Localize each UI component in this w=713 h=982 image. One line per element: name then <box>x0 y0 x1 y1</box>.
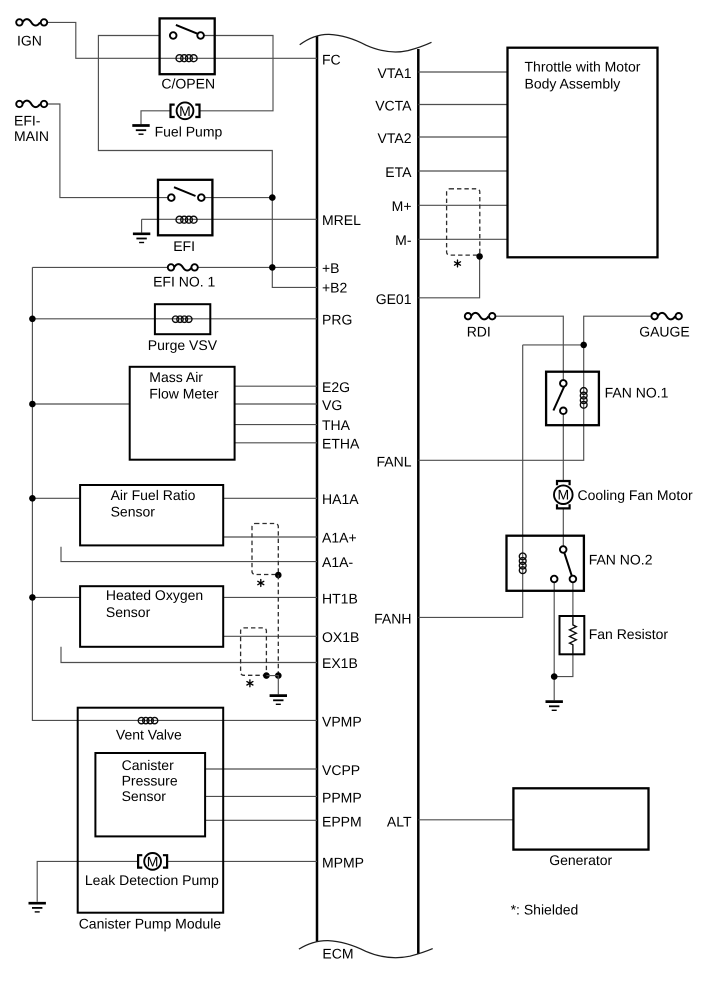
wire EPPM pin <box>205 819 317 821</box>
fuse RDI <box>465 313 496 320</box>
fuse EFI NO. 1 <box>168 264 198 271</box>
switch contacts FAN NO.1 <box>553 387 564 411</box>
svg-text:M+: M+ <box>392 198 412 214</box>
wire bus to Air Fuel Ratio Sensor <box>32 497 80 499</box>
svg-text:EX1B: EX1B <box>322 655 358 671</box>
wire node to FAN NO.2 coil feed <box>523 344 584 346</box>
wire fuel pump to ground <box>141 111 170 124</box>
node shield drain OX1B <box>263 672 270 679</box>
svg-text:EPPM: EPPM <box>322 814 362 830</box>
wire VG pin <box>235 403 317 405</box>
svg-text:RDI: RDI <box>467 324 491 340</box>
wire C/OPEN switch out to fuel pump <box>200 36 273 111</box>
svg-text:Heated Oxygen: Heated Oxygen <box>106 587 203 603</box>
motor Cooling Fan <box>554 481 573 508</box>
ground shield drains <box>270 696 287 705</box>
svg-text:M: M <box>179 103 191 119</box>
svg-text:E2G: E2G <box>322 379 350 395</box>
svg-text:HA1A: HA1A <box>322 491 359 507</box>
wire VTA1 <box>418 71 507 73</box>
svg-text:FANH: FANH <box>374 611 411 627</box>
wire FAN NO.2 right throw to fan resistor <box>572 582 574 616</box>
ECM top break squiggle <box>300 34 432 52</box>
svg-text:Sensor: Sensor <box>111 504 156 520</box>
svg-text:FAN NO.2: FAN NO.2 <box>589 552 653 568</box>
ECM bottom break squiggle <box>299 941 433 958</box>
coil C/OPEN relay <box>176 55 197 62</box>
switch contacts EFI <box>174 187 196 196</box>
svg-text:ALT: ALT <box>387 814 412 830</box>
label asterisk shield A1A <box>258 580 264 587</box>
ground leak detection pump <box>29 903 46 912</box>
shield dashed box around M+/M- <box>447 189 480 255</box>
ground cooling fan circuit <box>546 702 563 711</box>
wire VTA2 <box>418 136 507 138</box>
label asterisk shield M+/M- <box>455 260 461 267</box>
node bus VG <box>29 401 36 408</box>
svg-text:ETA: ETA <box>385 164 412 180</box>
svg-text:MAIN: MAIN <box>14 128 49 144</box>
Mass Air Flow Meter box <box>130 367 235 460</box>
wire GE01 to shield node <box>418 256 479 297</box>
wire C/OPEN switch feed down to +B2 <box>98 36 317 288</box>
wire RDI to FAN NO.1 switch <box>495 316 563 380</box>
wire PRG line through Purge VSV <box>32 318 317 320</box>
svg-text:+B: +B <box>322 260 340 276</box>
svg-text:OX1B: OX1B <box>322 629 359 645</box>
svg-text:GAUGE: GAUGE <box>639 324 690 340</box>
svg-text:THA: THA <box>322 417 351 433</box>
svg-text:GE01: GE01 <box>376 291 412 307</box>
shield dashed box around OX1B/EX1B <box>241 628 267 675</box>
Canister Pump Module box <box>78 708 224 913</box>
wire bus to Heated Oxygen Sensor <box>32 596 80 598</box>
wire bus to Mass Air Flow Meter <box>32 403 129 405</box>
svg-text:Pressure: Pressure <box>122 772 178 788</box>
fuse IGN <box>16 19 47 26</box>
svg-text:Vent Valve: Vent Valve <box>116 727 182 743</box>
Canister Pressure Sensor box <box>95 753 205 836</box>
wire ALT to generator <box>418 819 513 821</box>
svg-text:C/OPEN: C/OPEN <box>161 76 215 92</box>
wire FAN NO.2 left throw to ground <box>553 582 555 700</box>
svg-text:Canister: Canister <box>122 757 174 773</box>
wire HT1B pin <box>223 596 317 598</box>
svg-text:VCPP: VCPP <box>322 762 360 778</box>
svg-text:A1A-: A1A- <box>322 554 353 570</box>
node GAUGE fan feed <box>580 342 587 349</box>
fuse EFI-MAIN <box>16 101 47 108</box>
svg-text:MREL: MREL <box>322 212 361 228</box>
wire EFI switch out to node <box>205 197 273 199</box>
svg-text:EFI-: EFI- <box>14 113 41 129</box>
svg-text:ETHA: ETHA <box>322 436 360 452</box>
svg-text:FANL: FANL <box>376 453 411 469</box>
svg-text:Purge VSV: Purge VSV <box>148 337 218 353</box>
Throttle with Motor Body Assembly box <box>508 48 658 258</box>
svg-text:Leak Detection Pump: Leak Detection Pump <box>85 872 219 888</box>
svg-text:MPMP: MPMP <box>322 855 364 871</box>
wire shield drains to ground <box>266 676 278 695</box>
shield dashed box around A1A+/A1A- <box>252 524 278 575</box>
svg-text:IGN: IGN <box>17 33 42 49</box>
svg-text:EFI: EFI <box>173 238 195 254</box>
ground fuel pump <box>132 126 149 135</box>
wire shield drain dashed vertical <box>277 575 279 676</box>
wire left bus down to VPMP line <box>32 267 317 720</box>
svg-text:M-: M- <box>395 232 412 248</box>
svg-text:Sensor: Sensor <box>106 604 151 620</box>
Generator box <box>513 788 648 849</box>
wire IGN feed to FC line <box>47 22 317 58</box>
wire fan resistor to ground node <box>554 654 573 676</box>
wire PPMP pin <box>205 795 317 797</box>
svg-text:Sensor: Sensor <box>122 788 167 804</box>
svg-text:M: M <box>147 853 159 869</box>
svg-text:*: Shielded: *: Shielded <box>511 902 579 918</box>
wire cooling fan motor to FAN NO.2 switch <box>562 508 564 546</box>
wire HA1A pin <box>223 497 317 499</box>
svg-text:Body Assembly: Body Assembly <box>525 76 621 92</box>
fuse GAUGE <box>651 313 682 320</box>
relay FAN NO.2 box <box>507 536 584 591</box>
svg-text:Cooling Fan Motor: Cooling Fan Motor <box>578 487 694 503</box>
wire EFI-MAIN feed to EFI switch <box>47 104 168 198</box>
svg-text:Air Fuel Ratio: Air Fuel Ratio <box>111 487 196 503</box>
node shield drain A1A <box>275 572 282 579</box>
svg-text:Canister Pump Module: Canister Pump Module <box>79 916 222 932</box>
svg-text:Fuel Pump: Fuel Pump <box>155 124 223 140</box>
svg-text:Mass Air: Mass Air <box>149 369 203 385</box>
wire A1A+ pin <box>223 536 317 538</box>
relay C/OPEN box <box>160 18 215 74</box>
wire THA pin <box>235 424 317 426</box>
node fan ground junction <box>551 673 558 680</box>
coil Vent Valve <box>138 717 158 723</box>
resistor Fan Resistor zigzag <box>570 616 577 654</box>
coil EFI relay <box>176 216 197 223</box>
switch contacts C/OPEN <box>176 25 198 34</box>
wire EFI NO.1 left to bus <box>32 266 167 268</box>
wire M+ <box>418 204 507 206</box>
coil Purge VSV <box>172 316 192 322</box>
wire MPMP pin <box>168 860 317 862</box>
svg-text:FAN NO.1: FAN NO.1 <box>605 385 669 401</box>
svg-text:VTA1: VTA1 <box>378 65 412 81</box>
ground EFI relay <box>133 234 150 243</box>
svg-text:HT1B: HT1B <box>322 591 358 607</box>
wire FAN NO.1 switch to cooling fan motor <box>562 414 564 481</box>
node bus HA1A <box>29 495 36 502</box>
node +B junction <box>269 264 276 271</box>
wire A1A- pin <box>61 547 317 562</box>
svg-text:VCTA: VCTA <box>375 98 412 114</box>
wire EFI NO.1 to +B <box>198 266 317 268</box>
node EFI switch to bus <box>269 194 276 201</box>
wire VCPP pin <box>205 768 317 770</box>
svg-text:M: M <box>557 487 569 503</box>
svg-text:Flow Meter: Flow Meter <box>149 385 219 401</box>
wire ETA <box>418 170 507 172</box>
wire E2G pin <box>235 385 317 387</box>
node bus PRG <box>29 316 36 323</box>
ECM right boundary line <box>417 49 420 954</box>
svg-text:+B2: +B2 <box>322 280 348 296</box>
wire GAUGE to FAN NO.1 coil and FANL <box>418 316 651 460</box>
Air Fuel Ratio Sensor box <box>80 485 223 545</box>
switch contacts FAN NO.2 <box>564 553 572 577</box>
svg-text:Generator: Generator <box>549 852 612 868</box>
svg-text:VTA2: VTA2 <box>378 130 412 146</box>
wire ETHA pin <box>235 442 317 444</box>
wire EFI coil to ground <box>141 219 143 232</box>
svg-text:PRG: PRG <box>322 312 352 328</box>
motor Fuel Pump <box>171 102 200 119</box>
coil FAN NO.1 relay <box>580 388 587 409</box>
Heated Oxygen Sensor box <box>80 586 223 647</box>
svg-text:VPMP: VPMP <box>322 713 362 729</box>
wire OX1B pin <box>223 635 317 637</box>
ECM left boundary line <box>316 37 319 942</box>
wire VCTA <box>418 104 507 106</box>
svg-text:EFI NO. 1: EFI NO. 1 <box>153 274 215 290</box>
Fan Resistor box <box>560 616 585 654</box>
node shield common <box>275 672 282 679</box>
relay EFI box <box>158 180 212 236</box>
wire M- <box>418 238 507 240</box>
solenoid Purge VSV box <box>155 304 210 334</box>
wire EX1B pin <box>61 647 317 663</box>
svg-text:FC: FC <box>322 52 341 68</box>
svg-text:Throttle with Motor: Throttle with Motor <box>525 59 641 75</box>
svg-text:ECM: ECM <box>322 946 353 962</box>
svg-text:VG: VG <box>322 397 342 413</box>
svg-text:PPMP: PPMP <box>322 790 362 806</box>
svg-text:A1A+: A1A+ <box>322 530 357 546</box>
motor Leak Detection Pump <box>138 853 167 870</box>
svg-text:Fan Resistor: Fan Resistor <box>589 626 669 642</box>
node shield drain M+/M- <box>476 253 483 260</box>
wire leak pump to ground <box>37 861 137 901</box>
wire FAN NO.2 coil to FANH <box>418 345 522 618</box>
label asterisk shield OX1B <box>247 680 253 687</box>
wire MREL line through EFI coil <box>142 218 317 220</box>
relay FAN NO.1 box <box>546 372 599 426</box>
node bus HT1B <box>29 594 36 601</box>
coil FAN NO.2 relay <box>519 553 526 574</box>
